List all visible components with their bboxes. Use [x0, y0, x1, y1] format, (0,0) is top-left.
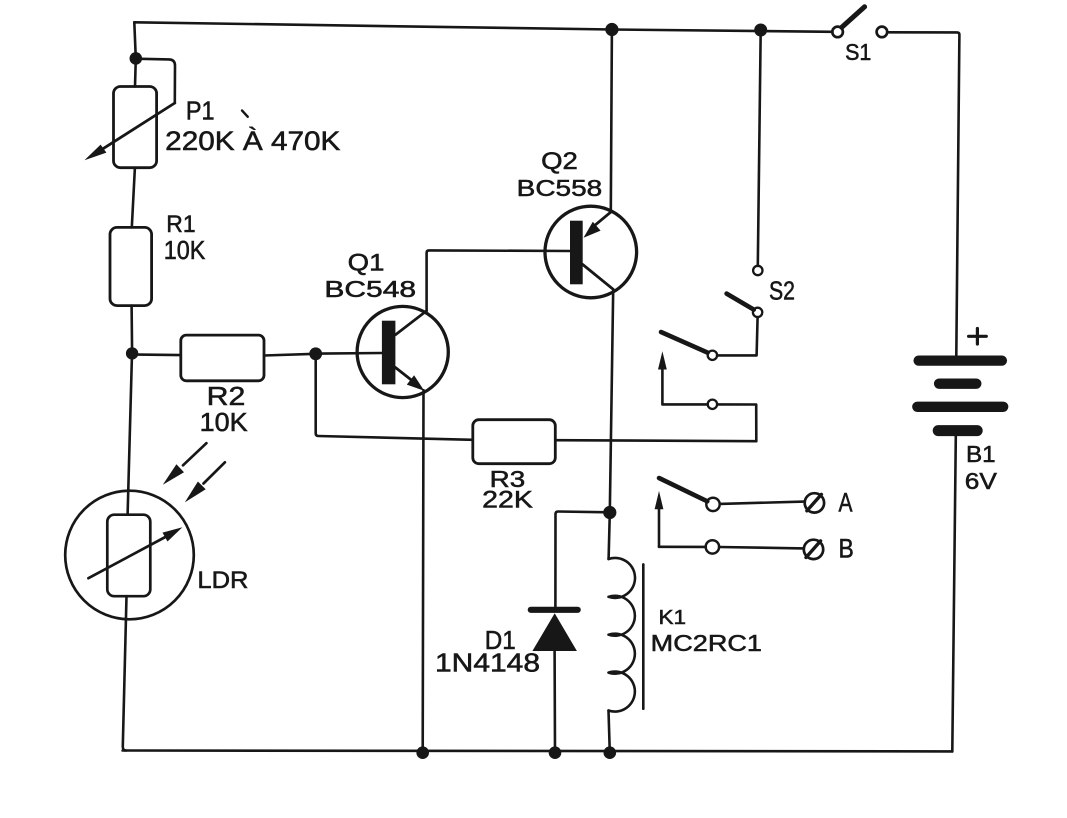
relay contact lever A — [659, 478, 707, 501]
node Q1 base junction — [309, 347, 322, 360]
transistor Q2 emitter with arrow — [594, 212, 611, 226]
resistor R3 body — [473, 420, 556, 464]
node D1 bottom junction — [549, 746, 562, 759]
svg-text:10K: 10K — [164, 235, 206, 265]
node contact A circle — [706, 498, 719, 511]
node S2 lower contact circle — [708, 400, 717, 409]
svg-text:Q2: Q2 — [541, 148, 578, 175]
svg-text:A: A — [839, 488, 853, 518]
wire contact B circle to terminal B — [719, 547, 804, 548]
wire node to LDR — [128, 353, 132, 514]
svg-text:6V: 6V — [965, 468, 998, 494]
switch S1 right contact — [877, 27, 888, 38]
svg-text:K1: K1 — [659, 606, 687, 629]
relay K1 coil — [609, 558, 636, 712]
wire contact A circle to terminal A — [720, 502, 805, 504]
transistor Q1 emitter with arrow — [395, 368, 412, 381]
svg-text:S1: S1 — [845, 39, 871, 65]
wire left drop from rail to P1 node — [134, 22, 136, 58]
svg-text:LDR: LDR — [197, 567, 248, 594]
wire Q2 collector down to D1 node — [610, 289, 613, 512]
svg-text:220K À 470K: 220K À 470K — [165, 126, 341, 156]
resistor R2 body — [181, 335, 264, 381]
light arrow 2 — [204, 462, 225, 483]
svg-text:BC548: BC548 — [324, 276, 416, 302]
battery plus sign — [969, 329, 987, 345]
node S2 middle contact circle — [708, 351, 717, 360]
wire P1 top stub — [134, 58, 137, 86]
wire D1 to bottom rail — [553, 651, 556, 753]
node coil bottom junction — [604, 746, 617, 759]
potentiometer P1 wiper arrow — [95, 103, 175, 154]
node top rail S2 junction — [754, 24, 767, 37]
switch S2 lever lower — [661, 332, 708, 353]
wire node to D1 top — [555, 512, 609, 608]
wire P1 to R1 — [132, 168, 135, 228]
LDR circle — [65, 491, 194, 620]
svg-text:B: B — [839, 534, 854, 564]
node top rail Q2 junction — [605, 23, 618, 36]
transistor Q1 collector — [395, 311, 426, 335]
label P1 tick mark — [242, 111, 248, 117]
LDR wiper arrow — [88, 535, 170, 579]
transistor Q2 base bar — [570, 221, 583, 285]
wire base node down and right to R3 — [316, 354, 473, 440]
transistor Q2 collector — [583, 265, 614, 290]
light arrow 1 — [183, 443, 206, 465]
LDR inner resistor body — [107, 515, 150, 597]
wire S2 middle circle to upper pivot — [717, 317, 758, 355]
transistor Q1 circle — [357, 306, 448, 397]
wire coil bottom to rail — [609, 711, 610, 753]
switch S2 lever upper — [727, 294, 754, 310]
wire S2 vertical to top rail — [758, 30, 761, 266]
transistor Q2 circle — [545, 206, 637, 298]
wire P1 wiper loop — [140, 59, 175, 103]
node S2 pivot circle — [753, 308, 762, 317]
battery B1 plates — [919, 355, 1002, 365]
svg-text:S2: S2 — [769, 276, 795, 306]
transistor Q1 base bar — [382, 321, 396, 385]
node D1/K1 junction — [603, 506, 616, 519]
wire R3 right to S2 lower loop — [555, 404, 756, 441]
wire Q2 emitter vertical — [611, 30, 612, 213]
wire arrow to contact B circle — [659, 545, 706, 548]
svg-text:R2: R2 — [207, 383, 246, 411]
diode D1 triangle — [532, 613, 577, 651]
switch S1 left contact — [832, 27, 843, 38]
potentiometer P1 body — [114, 87, 157, 168]
svg-text:B1: B1 — [966, 441, 996, 467]
wire S2 lower circle to arrow base — [662, 368, 707, 405]
svg-text:10K: 10K — [200, 409, 248, 437]
node P1 top junction — [130, 52, 143, 65]
wire Q1 collector up and right to Q2 base — [427, 250, 570, 310]
wire top rail — [134, 22, 832, 32]
terminal A screw — [805, 493, 824, 512]
relay contact armature arrow — [655, 491, 664, 509]
svg-text:Q1: Q1 — [348, 249, 385, 276]
node S2 top contact circle — [753, 266, 762, 275]
wire R1 to node — [130, 306, 133, 354]
LDR bottom wire to rail — [123, 596, 127, 750]
switch S2 armature arrow — [658, 351, 667, 369]
wire Q1 emitter down to bottom rail — [421, 390, 424, 753]
wire base node to Q1 base — [321, 352, 382, 355]
svg-text:22K: 22K — [482, 487, 533, 514]
svg-text:P1: P1 — [186, 96, 215, 126]
svg-text:1N4148: 1N4148 — [435, 650, 540, 678]
svg-text:MC2RC1: MC2RC1 — [651, 630, 762, 656]
wire right vertical battery negative — [952, 436, 956, 751]
wire node to R2 — [138, 353, 181, 356]
wire battery positive up to S1 — [887, 32, 959, 355]
resistor R1 body — [110, 227, 152, 305]
node contact B circle — [706, 540, 719, 553]
wire node to relay coil top — [609, 513, 610, 560]
switch S1 lever — [842, 7, 865, 27]
terminal B screw — [804, 540, 823, 559]
wire bottom rail — [123, 749, 953, 753]
svg-text:BC558: BC558 — [517, 175, 603, 201]
node Q1 emitter bottom junction — [416, 746, 429, 759]
diode D1 cathode bar — [531, 607, 578, 613]
node R1/R2/LDR junction — [126, 347, 138, 359]
relay K1 frame bar — [642, 564, 645, 708]
wire R2 to base node — [264, 354, 316, 356]
